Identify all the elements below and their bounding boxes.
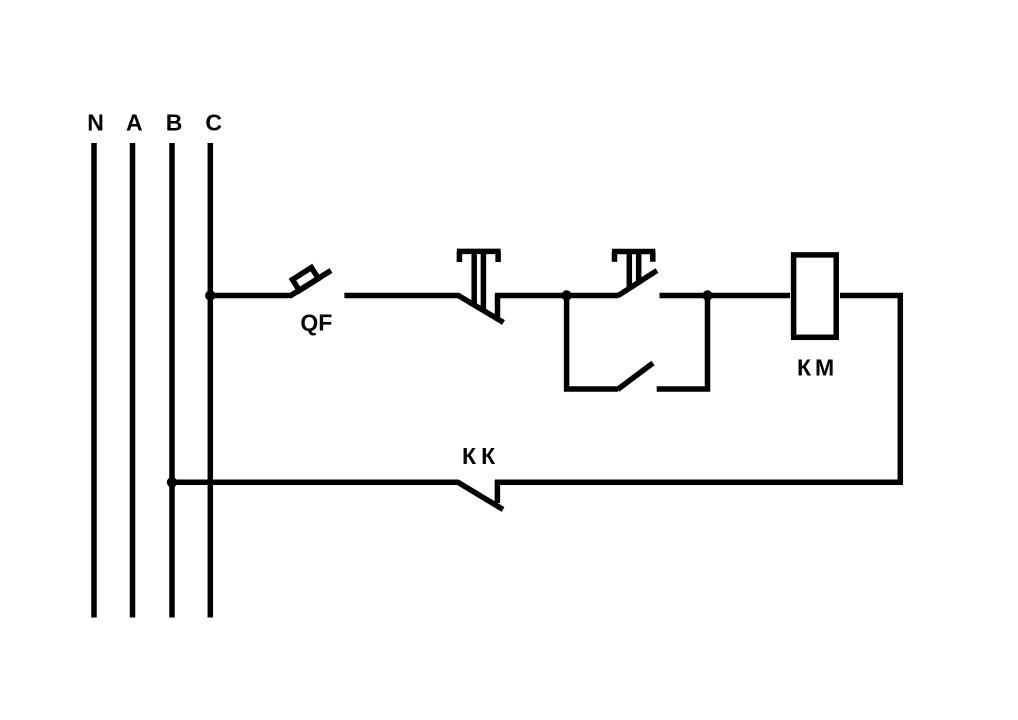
start pushbutton plunger right stem [636, 253, 642, 282]
stop pushbutton NC contact lever [458, 295, 504, 323]
start pushbutton NO contact lever [618, 271, 658, 297]
wire bus C to QF [210, 293, 292, 299]
bus N [91, 143, 97, 618]
bus A [130, 143, 136, 618]
stop pushbutton actuator left tick [457, 251, 463, 262]
stop pushbutton actuator right tick [495, 251, 501, 262]
start pushbutton actuator bar [612, 249, 655, 255]
circuit breaker QF lever [290, 271, 331, 297]
bus C [208, 143, 214, 618]
svg-text:A: A [126, 110, 143, 136]
start pushbutton actuator left tick [612, 252, 618, 262]
wire start button to coil KM [660, 293, 791, 299]
stop pushbutton actuator bar [457, 249, 501, 255]
bus B [169, 143, 175, 618]
stop pushbutton plunger right stem [481, 253, 487, 312]
svg-text:N: N [87, 110, 104, 136]
contactor coil KM [794, 255, 837, 337]
thermal relay contact KK NC lever [458, 482, 504, 510]
wire KK to bus B [172, 480, 459, 486]
circuit breaker QF body square [292, 268, 318, 291]
auxiliary contact KM NO lever [618, 363, 653, 390]
svg-text:КМ: КМ [797, 355, 838, 381]
wire QF to stop button [344, 293, 459, 299]
thermal relay contact KK fixed stub [495, 480, 501, 503]
wire stop button to start button [495, 293, 618, 299]
svg-text:КК: КК [462, 443, 500, 469]
stop pushbutton fixed contact stub [495, 294, 501, 317]
start pushbutton plunger left stem [627, 253, 633, 288]
node junction left of start button [561, 290, 571, 300]
wire coil KM right side down to bottom [495, 296, 900, 483]
node junction on bus B [167, 477, 177, 487]
node junction on bus C [205, 290, 215, 300]
auxiliary contact KM right branch wire [657, 296, 708, 390]
svg-text:QF: QF [300, 310, 332, 336]
node junction right of start button [702, 290, 712, 300]
start pushbutton actuator right tick [650, 252, 656, 262]
stop pushbutton plunger left stem [471, 253, 477, 306]
svg-text:C: C [205, 110, 222, 136]
svg-text:B: B [166, 110, 183, 136]
auxiliary contact KM left branch wire [567, 296, 618, 390]
